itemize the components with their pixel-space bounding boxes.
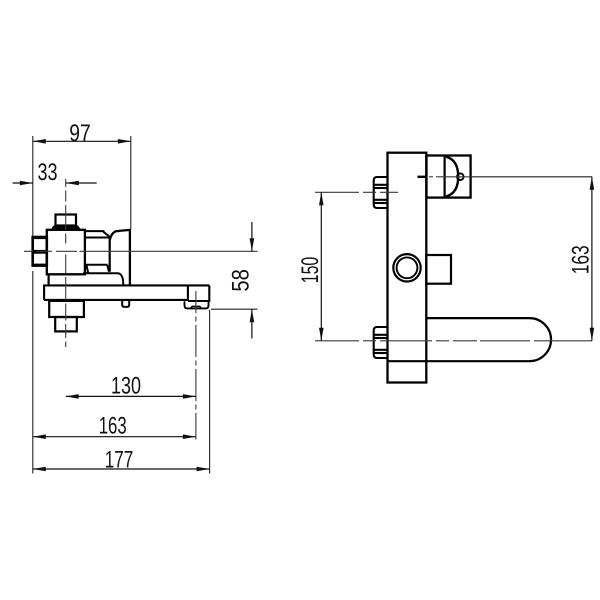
centerline top connector [315,191,398,193]
dimension 58 [228,222,255,339]
dimension 150 [297,192,324,340]
dimension 130 [66,373,196,400]
extension line 58 bottom [211,308,258,310]
extension line lever right [130,136,132,229]
dimension 177 [33,446,210,473]
dimension 163 right [567,177,594,341]
cartridge housing [86,238,110,274]
handle arc [446,157,458,197]
svg-text:97: 97 [69,120,91,147]
lower inlet stub [55,317,77,331]
drip tab under bar [122,301,129,307]
centerline vertical body axis [65,179,67,347]
dimension 33 [13,159,97,186]
dimension 163 [33,413,196,440]
diverter circle outer [393,254,420,281]
svg-text:163: 163 [99,413,127,440]
lower inlet block [49,301,84,317]
centerline horizontal body axis [24,250,258,252]
bottom wall connector [374,327,388,358]
side outlet block [426,255,451,284]
wall hex nut [32,237,48,266]
aerator ring [185,301,209,308]
front body joint line [388,360,427,362]
diverter circle inner [397,257,418,278]
svg-text:150: 150 [297,257,324,284]
top wall connector [374,177,388,208]
front body [388,153,427,383]
svg-text:58: 58 [228,269,255,292]
svg-text:130: 130 [111,373,141,400]
valve body [47,230,85,274]
dimension 97 [33,120,131,147]
spout bar [44,285,209,301]
knob collar (filled bell) [52,225,80,229]
centerline handle axis [429,176,471,178]
svg-text:163: 163 [567,245,594,274]
spout front [426,318,551,361]
centerline spout and bottom connector axis [315,340,592,342]
body base flange [49,273,124,285]
cartridge cap [85,231,110,237]
handle pivot screw [457,173,464,180]
bar bottom line [44,299,188,301]
centerline spout outlet axis [195,291,197,440]
handle knob [56,215,77,226]
handle chord line [444,156,446,198]
svg-text:33: 33 [38,159,58,186]
centerline handle axis thick stub [418,176,427,178]
lever handle [110,230,130,285]
extension line left lower [32,271,34,474]
extension line left (hex face) upper [32,136,34,237]
aerator insert ellipse [191,306,202,308]
extension line spout end [209,310,211,474]
handle block [427,156,471,198]
svg-text:177: 177 [105,446,134,473]
